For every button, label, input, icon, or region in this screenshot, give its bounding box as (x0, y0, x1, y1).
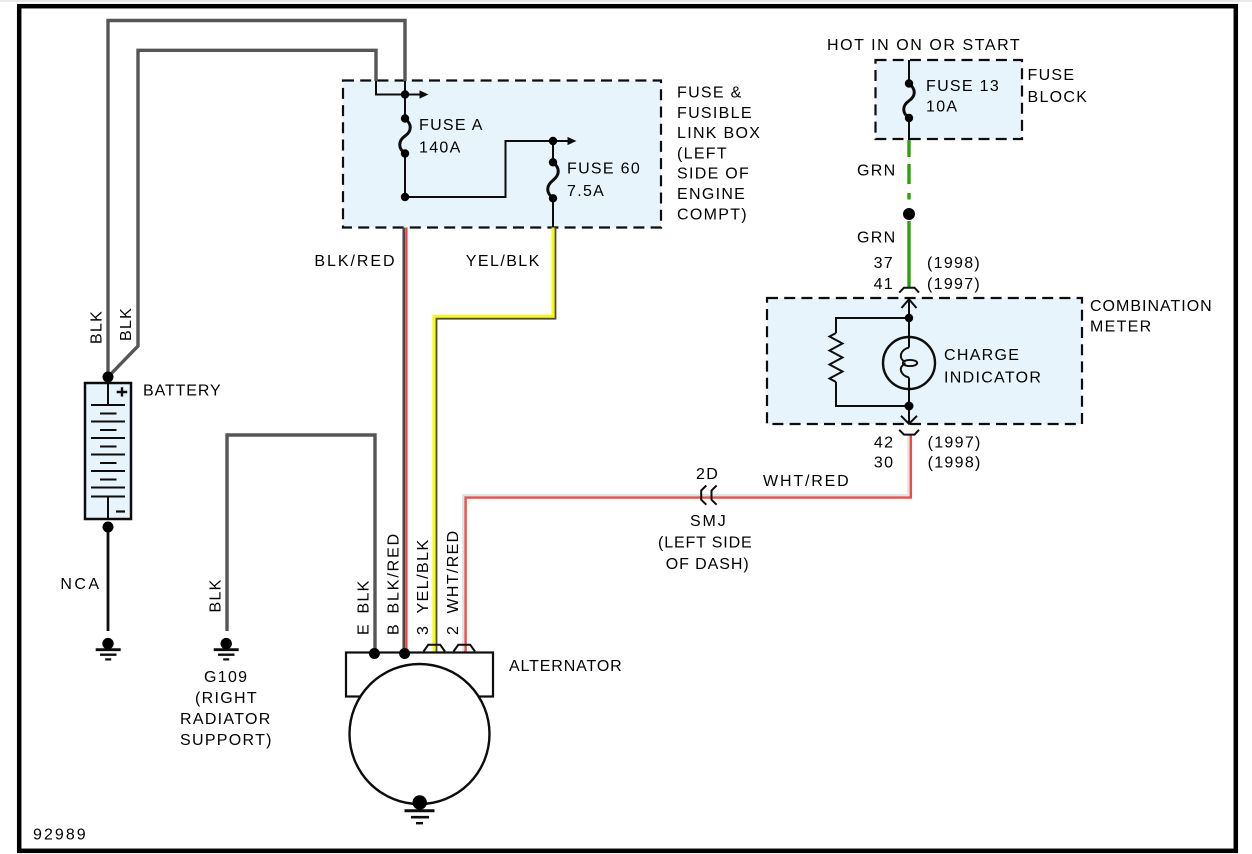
svg-text:GRN: GRN (857, 162, 896, 179)
svg-text:FUSE 13: FUSE 13 (926, 78, 1000, 95)
svg-text:FUSE A: FUSE A (419, 117, 484, 134)
svg-text:41: 41 (874, 276, 894, 293)
svg-text:WHT/RED: WHT/RED (763, 473, 850, 490)
svg-text:G109: G109 (204, 669, 248, 686)
svg-text:SIDE OF: SIDE OF (677, 166, 750, 183)
svg-text:30: 30 (874, 455, 894, 472)
svg-text:OF DASH): OF DASH) (666, 556, 750, 573)
svg-text:92989: 92989 (33, 827, 87, 844)
svg-text:BLK: BLK (208, 578, 225, 612)
svg-text:ALTERNATOR: ALTERNATOR (509, 658, 623, 675)
svg-text:LINK BOX: LINK BOX (677, 125, 761, 142)
svg-text:E: E (356, 623, 373, 635)
svg-text:(1997): (1997) (928, 435, 982, 452)
svg-text:INDICATOR: INDICATOR (944, 369, 1042, 386)
svg-text:HOT IN ON OR START: HOT IN ON OR START (827, 37, 1021, 54)
svg-text:CHARGE: CHARGE (944, 347, 1020, 364)
svg-text:COMBINATION: COMBINATION (1090, 298, 1213, 315)
svg-text:BLK/RED: BLK/RED (314, 253, 396, 270)
svg-text:(1997): (1997) (927, 276, 981, 293)
svg-text:(1998): (1998) (927, 255, 981, 272)
svg-text:NCA: NCA (60, 576, 100, 593)
svg-text:FUSE 60: FUSE 60 (567, 161, 641, 178)
svg-text:RADIATOR: RADIATOR (180, 711, 272, 728)
svg-text:GRN: GRN (857, 230, 896, 247)
svg-text:37: 37 (874, 255, 894, 272)
svg-text:BLK: BLK (89, 310, 106, 344)
svg-text:FUSIBLE: FUSIBLE (677, 105, 753, 122)
svg-text:B: B (386, 623, 403, 635)
svg-text:FUSE: FUSE (1028, 67, 1076, 84)
svg-text:(LEFT: (LEFT (677, 145, 728, 162)
svg-text:BLK: BLK (356, 579, 373, 613)
svg-text:WHT/RED: WHT/RED (445, 530, 462, 614)
svg-text:ENGINE: ENGINE (677, 186, 746, 203)
svg-text:140A: 140A (419, 140, 462, 157)
svg-text:2D: 2D (696, 466, 719, 483)
svg-text:10A: 10A (926, 99, 958, 116)
svg-text:BLOCK: BLOCK (1028, 89, 1089, 106)
svg-text:7.5A: 7.5A (567, 183, 605, 200)
svg-text:BLK: BLK (118, 307, 135, 341)
svg-text:METER: METER (1090, 319, 1153, 336)
svg-text:SUPPORT): SUPPORT) (180, 732, 273, 749)
svg-text:YEL/BLK: YEL/BLK (466, 253, 541, 270)
svg-text:FUSE &: FUSE & (677, 85, 743, 102)
svg-text:SMJ: SMJ (690, 513, 727, 530)
svg-text:BATTERY: BATTERY (143, 383, 222, 400)
svg-text:42: 42 (874, 435, 894, 452)
svg-text:YEL/BLK: YEL/BLK (415, 539, 432, 614)
svg-text:(RIGHT: (RIGHT (195, 690, 258, 707)
svg-text:(LEFT SIDE: (LEFT SIDE (658, 535, 753, 552)
svg-text:2: 2 (445, 625, 462, 635)
svg-text:BLK/RED: BLK/RED (386, 533, 403, 614)
svg-text:3: 3 (415, 625, 432, 635)
svg-text:(1998): (1998) (928, 455, 982, 472)
svg-text:COMPT): COMPT) (677, 206, 748, 223)
